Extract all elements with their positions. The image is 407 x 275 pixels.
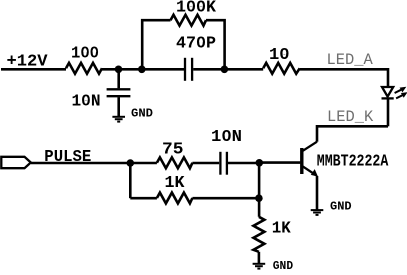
- wire PULSE to junction: [31, 162, 130, 165]
- LED D1 light arrow upper: [395, 87, 407, 93]
- transistor emitter arrowhead: [311, 169, 318, 177]
- wire emitter down to ground: [316, 176, 319, 210]
- junction at 10N branch: [115, 66, 123, 74]
- junction at pulldown node: [255, 194, 263, 202]
- svg-text:1K: 1K: [272, 220, 292, 239]
- wire LED cathode down to rail: [387, 99, 390, 127]
- wire base junction to Q1 base: [259, 161, 300, 164]
- transistor MMBT2222A base bar: [300, 148, 303, 174]
- zero glyph dot covers (font cosmetic): [83, 3, 286, 136]
- capacitor 10N shunt: [107, 89, 131, 96]
- svg-text:75: 75: [162, 140, 184, 159]
- svg-text:1K: 1K: [165, 174, 186, 193]
- junction at PULSE split: [127, 159, 135, 167]
- wire lower branch to R 1K: [130, 197, 157, 200]
- LED D1 light arrow lower: [396, 92, 407, 98]
- wire junction to 10N shunt capacitor: [117, 69, 120, 88]
- svg-text:MMBT2222A: MMBT2222A: [317, 153, 389, 172]
- wire 100K branch right vertical: [206, 20, 225, 69]
- wire 10N capacitor to ground: [117, 97, 120, 116]
- wire R 100 to 470P capacitor: [102, 68, 184, 71]
- junction at 100K branch left: [138, 66, 146, 74]
- transistor emitter diagonal: [303, 166, 316, 175]
- LED D1 cathode bar: [382, 97, 394, 99]
- junction at 100K branch right: [221, 66, 229, 74]
- wire R 10 to LED anode corner: [300, 69, 388, 87]
- connector PULSE input: [1, 157, 31, 168]
- svg-text:LED_A: LED_A: [327, 51, 374, 69]
- capacitor 470P: [185, 58, 192, 81]
- wire R 75 to 10N series capacitor: [192, 162, 219, 165]
- svg-text:10N: 10N: [72, 92, 101, 111]
- wire R 1K to lower junction: [192, 197, 259, 200]
- svg-text:100K: 100K: [176, 0, 217, 17]
- wire 470P to R 10: [193, 68, 263, 71]
- wire collector up to LED_K rail: [317, 126, 388, 141]
- svg-text:GND: GND: [273, 260, 293, 273]
- resistor 1K parallel: [157, 193, 193, 204]
- svg-text:100: 100: [71, 45, 99, 64]
- resistor 100K: [171, 15, 207, 26]
- resistor 100: [66, 63, 102, 74]
- capacitor 10N series: [220, 152, 227, 175]
- wire lower branch vertical from PULSE junction: [129, 163, 132, 198]
- LED D1 triangle: [382, 87, 393, 97]
- junction at base node: [255, 159, 263, 167]
- svg-text:LED_K: LED_K: [327, 108, 374, 126]
- resistor 10: [263, 63, 300, 74]
- wire 100K branch left vertical: [142, 20, 170, 69]
- svg-text:GND: GND: [131, 107, 153, 120]
- ground symbol GND under 10N: [112, 117, 125, 122]
- wire base node down to pulldown resistor: [258, 163, 261, 217]
- svg-text:10N: 10N: [211, 128, 242, 147]
- ground symbol GND at emitter: [311, 210, 324, 215]
- wire junction to R 75: [130, 162, 157, 165]
- wire pulldown resistor to ground: [258, 252, 261, 264]
- wire +12V to R 100: [1, 68, 66, 71]
- ground symbol GND under pulldown: [253, 264, 266, 269]
- resistor 1K pulldown: [253, 217, 264, 252]
- wire 10N series to base junction: [228, 162, 259, 165]
- svg-text:470P: 470P: [176, 35, 216, 54]
- svg-text:GND: GND: [330, 201, 352, 214]
- transistor collector diagonal: [303, 142, 317, 151]
- svg-text:10: 10: [269, 46, 290, 65]
- resistor 75: [157, 157, 193, 168]
